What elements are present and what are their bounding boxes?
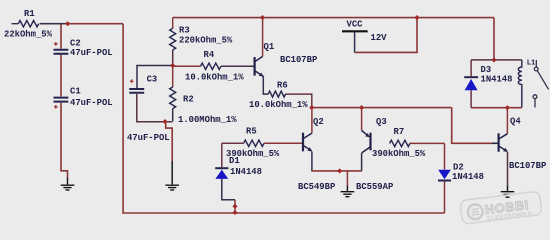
svg-text:R2: R2 [183, 95, 194, 105]
svg-text:1N4148: 1N4148 [230, 167, 262, 177]
svg-text:47uF-POL: 47uF-POL [70, 98, 113, 108]
relay coil L1 [518, 60, 535, 108]
wire R5 right lead to Q2 base [264, 142, 302, 144]
ground G3 (Q2/Q3 emitters) [341, 192, 355, 197]
junction node emitter row / ground stem [337, 168, 342, 173]
wire C2 to C1 [60, 55, 62, 97]
svg-text:47uF-POL: 47uF-POL [127, 133, 170, 143]
diode D2 1N4148 [438, 163, 484, 183]
svg-text:1.00MOhm_1%: 1.00MOhm_1% [178, 115, 237, 125]
svg-text:R1: R1 [24, 9, 35, 19]
svg-text:1N4148: 1N4148 [452, 172, 484, 182]
wire top rail VCC net [173, 17, 494, 19]
ground G4 (Q4 emitter) [501, 192, 515, 198]
junction node R6/Q2 collector [309, 105, 314, 110]
resistor R3 220kOhm_5% [170, 25, 233, 49]
transistor Q4 BC107BP [492, 116, 546, 171]
svg-text:VCC: VCC [347, 19, 364, 29]
wire top-left rail from R1 to left vertical rail [40, 23, 123, 25]
junction node VCC tap on rail [414, 15, 419, 20]
VCC power symbol 12V [342, 19, 387, 52]
wire relay bottom row [471, 107, 522, 109]
wire drop to D2 [444, 143, 446, 169]
resistor R7 390kOhm_5% [372, 127, 426, 159]
svg-text:R7: R7 [394, 127, 405, 137]
capacitor C3 47uF-POL [127, 75, 170, 143]
svg-text:220kOhm_5%: 220kOhm_5% [179, 35, 233, 45]
wire Q3 emitter up to node [361, 108, 363, 131]
wire drop to Q4 base [452, 108, 498, 144]
diode D3 1N4148 [464, 60, 512, 108]
wire C3 top to R3/R4 junction [137, 66, 172, 89]
svg-text:R5: R5 [246, 127, 257, 137]
svg-text:BC559AP: BC559AP [356, 182, 393, 192]
wire left vertical rail and bottom rail [123, 24, 444, 214]
wire C1 to ground G1 [61, 103, 68, 178]
wire R3 top lead from rail [172, 18, 174, 29]
svg-text:Q1: Q1 [264, 42, 275, 52]
svg-text:Q4: Q4 [510, 116, 521, 126]
wire node row y108 to Q4-base drop [312, 107, 452, 109]
svg-text:12V: 12V [371, 33, 388, 43]
relay switch contact [533, 60, 549, 99]
wire R3 bottom lead to junction [172, 50, 174, 66]
svg-text:D3: D3 [481, 65, 492, 75]
transistor Q2 BC549BP [298, 117, 335, 192]
wire relay top row D3 to coil [471, 59, 522, 61]
junction node R3/R4/R2/C3 [170, 63, 175, 68]
wire stem to ground G3 [346, 171, 348, 192]
svg-text:47uF-POL: 47uF-POL [70, 48, 113, 58]
svg-text:390kOhm_5%: 390kOhm_5% [372, 149, 426, 159]
wire C2 branch from top rail [60, 24, 62, 49]
wire R4 left lead [173, 65, 201, 67]
svg-text:R6: R6 [277, 81, 288, 91]
junction node C3/R2 bottom [162, 119, 167, 124]
resistor R1 22kOhm_5% [4, 9, 67, 39]
watermark HOBBI ELEKTRONIKA [460, 191, 542, 225]
diode D1 1N4148 [215, 156, 262, 179]
wire R6 right lead down to node [285, 94, 311, 107]
wire D1 bottom jog to rail [222, 179, 235, 213]
wire relay switch stub [534, 99, 536, 108]
junction node Q1 collector on rail [260, 15, 265, 20]
junction node relay top row [491, 57, 496, 62]
junction node Q3 emitter on row [359, 105, 364, 110]
svg-text:10.0kOhm_1%: 10.0kOhm_1% [185, 73, 244, 83]
wire R2 bottom lead [172, 109, 174, 122]
wire Q2 collector up to node [311, 108, 313, 134]
transistor Q3 BC559AP [356, 117, 393, 192]
svg-text:D2: D2 [453, 163, 464, 173]
wire R2 top lead [172, 65, 174, 87]
wire R4 right lead to Q1 base [221, 65, 254, 67]
wire D2 bottom to rail [444, 181, 446, 213]
capacitor C1 47uF-POL [54, 86, 113, 108]
junction node top-left (C2 tap) [65, 21, 70, 26]
capacitor C2 47uF-POL [54, 39, 113, 58]
wire Q2 emitter down [311, 152, 313, 172]
resistor R2 1.00MOhm_1% [170, 87, 238, 125]
svg-text:C1: C1 [70, 86, 81, 96]
wire R5 corner down to D1 [222, 143, 244, 167]
svg-text:L1: L1 [527, 60, 535, 68]
svg-text:BC107BP: BC107BP [280, 55, 317, 65]
wire Q1 collector to top rail [262, 18, 264, 57]
svg-text:BC549BP: BC549BP [298, 182, 335, 192]
wire Q4 emitter to ground G4 [507, 152, 509, 192]
svg-text:R4: R4 [204, 50, 215, 60]
transistor Q1 BC107BP [255, 42, 318, 77]
junction node Q4 collector / relay row [505, 105, 510, 110]
svg-text:D1: D1 [229, 156, 240, 166]
wire Q3 collector down [361, 153, 363, 171]
resistor R6 10.0kOhm_1% [249, 81, 308, 110]
svg-text:10.0kOhm_1%: 10.0kOhm_1% [249, 100, 308, 110]
junction node D1 on bottom rail [232, 210, 237, 215]
svg-text:22kOhm_5%: 22kOhm_5% [4, 29, 53, 39]
svg-text:C3: C3 [147, 75, 158, 85]
wire emitter row Q2-Q3 [311, 170, 362, 172]
wire R7 right lead [410, 142, 445, 144]
ground G2 (R2/C3 branch) [165, 185, 179, 190]
junction node D1 drop upper [232, 204, 237, 209]
wire VCC tap to top rail [355, 18, 417, 52]
svg-text:Q2: Q2 [313, 117, 324, 127]
svg-text:R3: R3 [179, 25, 190, 35]
svg-text:1N4148: 1N4148 [481, 75, 513, 85]
wire Q4 collector vertical [506, 108, 508, 134]
svg-text:Q3: Q3 [376, 117, 387, 127]
wire jog down to ground G2 [166, 122, 173, 185]
resistor R5 390kOhm_5% [226, 127, 280, 159]
svg-text:BC107BP: BC107BP [509, 161, 546, 171]
wire Q1 emitter to R6 [263, 76, 268, 94]
ground G1 (C1 branch) [61, 178, 75, 190]
wire C3 bottom to R2 bottom [137, 94, 173, 122]
wire top-right drop from rail to relay row [493, 18, 495, 60]
resistor R4 10.0kOhm_1% [185, 50, 244, 83]
